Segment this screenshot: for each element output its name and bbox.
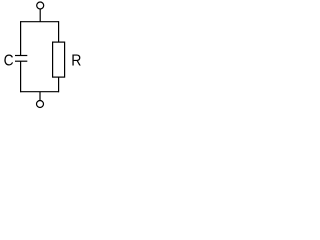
wire bottom stub: [39, 92, 41, 100]
bottom terminal: [37, 101, 44, 108]
resistor R body: [53, 42, 65, 77]
capacitor C top plate: [15, 55, 27, 57]
svg-text:C: C: [4, 52, 14, 70]
wire top horizontal: [21, 21, 59, 23]
wire bottom horizontal: [21, 91, 59, 93]
svg-text:R: R: [71, 52, 81, 70]
top terminal: [37, 2, 44, 9]
wire top stub: [39, 9, 41, 22]
wire right lower: [58, 77, 60, 92]
wire left upper: [20, 21, 22, 55]
wire right upper: [58, 21, 60, 42]
capacitor C bottom plate: [15, 60, 27, 62]
wire left lower: [20, 61, 22, 92]
